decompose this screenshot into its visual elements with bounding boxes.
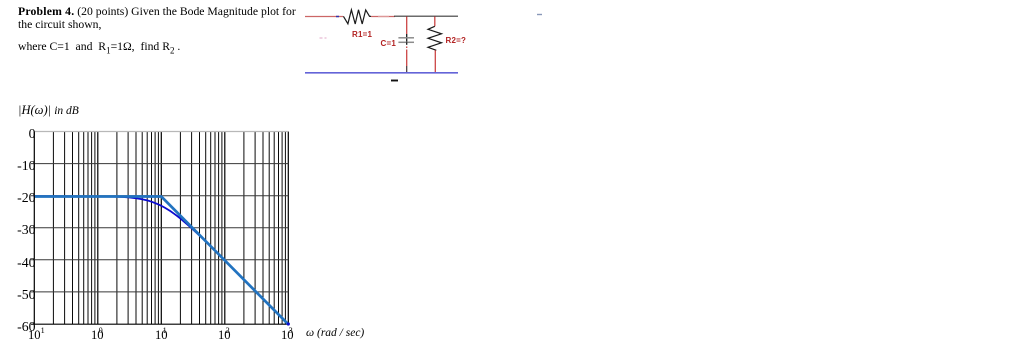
curve: exact response (dark blue)	[34, 196, 288, 324]
x axis title	[306, 327, 364, 339]
wire: R1 to node B	[371, 16, 395, 18]
curve: asymptote (light blue)	[34, 197, 288, 325]
minus terminal label	[391, 80, 398, 82]
grid horizontal lines	[31, 164, 288, 292]
resistor R2	[428, 26, 442, 50]
wire: R2 bottom lead	[434, 50, 436, 72]
circuit schematic svg	[295, 0, 555, 95]
grid horizontal top line	[34, 131, 288, 133]
label R2=?	[446, 36, 467, 45]
grid major vertical lines	[34, 132, 288, 325]
bode plot svg	[25, 125, 315, 335]
wire: bottom return wire (blue)	[305, 72, 458, 74]
wire: capacitor bottom lead	[406, 50, 408, 67]
wire: faint pink overlay segment	[378, 16, 389, 18]
stray dash top right	[537, 14, 542, 16]
curve end dot	[287, 322, 290, 325]
label C=1	[381, 39, 397, 48]
faint marks near source	[320, 37, 327, 39]
plot title	[18, 103, 79, 118]
wire: capacitor top lead	[406, 17, 408, 35]
wire: capacitor top lead dark stub	[406, 34, 408, 42]
grid minor vertical lines	[53, 132, 285, 325]
wire: R2 top lead	[434, 17, 436, 27]
wire: input lead left of R1	[305, 16, 343, 18]
node A (small blue dash on input wire)	[336, 16, 339, 18]
wire: capacitor bottom lead dark stub	[406, 42, 408, 45]
y axis labels	[6, 127, 36, 141]
wire: capacitor lead lower dark part	[406, 66, 408, 73]
wire: top wire node B to output	[394, 15, 458, 17]
x axis labels	[28, 327, 45, 343]
label R1=1	[352, 30, 372, 39]
wire: capacitor red dot	[406, 47, 408, 49]
resistor R1	[343, 10, 371, 24]
capacitor C1 plates	[398, 37, 414, 39]
grid bottom axis line	[31, 323, 288, 325]
problem statement text	[18, 5, 312, 58]
